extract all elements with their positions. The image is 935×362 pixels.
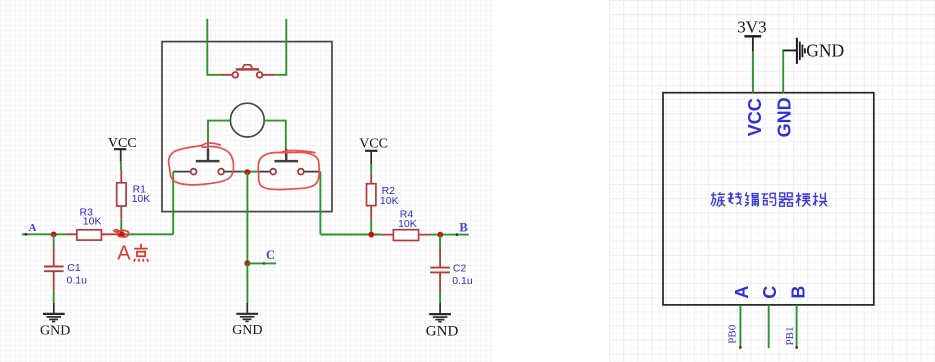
svg-text:B: B bbox=[459, 221, 467, 235]
switch SW-A actuator bbox=[196, 149, 220, 161]
svg-text:A: A bbox=[29, 222, 37, 234]
wire 3v3 to vcc pin bbox=[752, 52, 754, 93]
svg-text:B: B bbox=[789, 286, 809, 299]
wire C2 to gnd bbox=[439, 292, 441, 303]
svg-text:C: C bbox=[266, 248, 275, 262]
svg-text:PB0: PB0 bbox=[727, 324, 739, 343]
svg-text:C1: C1 bbox=[67, 262, 81, 274]
switch SW-A contacts bbox=[191, 169, 197, 175]
module title glyphs bbox=[711, 192, 828, 206]
svg-text:10K: 10K bbox=[398, 218, 417, 230]
svg-text:A: A bbox=[117, 242, 131, 264]
glyph kuai bbox=[813, 193, 828, 207]
wire center to gnd bbox=[246, 263, 248, 303]
wire endpoint A bbox=[24, 233, 27, 236]
wire shaft left bbox=[208, 121, 230, 150]
switch SW-A contact lines bbox=[173, 171, 240, 173]
glyph mo bbox=[796, 192, 811, 206]
resistor R1 bbox=[120, 171, 122, 220]
resistor R2 bbox=[370, 174, 372, 221]
wire switch A left drop bbox=[172, 172, 174, 235]
push button S1 leads bbox=[221, 74, 275, 76]
ground left bbox=[43, 303, 65, 322]
glyph qi bbox=[779, 193, 793, 206]
pin wire C bbox=[768, 305, 770, 348]
svg-text:GND: GND bbox=[806, 40, 844, 60]
svg-text:GND: GND bbox=[775, 97, 795, 137]
glyph xuan bbox=[711, 192, 725, 206]
annotation ellipse left switch bbox=[169, 143, 234, 185]
encoder outline box bbox=[162, 42, 332, 212]
glyph ma bbox=[762, 193, 776, 205]
junction A / C1 bbox=[51, 232, 57, 238]
glyph dian bbox=[134, 244, 148, 262]
wire R2 to rail bbox=[370, 221, 372, 235]
wire rail A bbox=[22, 233, 67, 235]
wire to center junction right bbox=[247, 171, 257, 173]
wire vcc to R2 bbox=[370, 165, 372, 174]
wire switch B right drop bbox=[319, 172, 321, 235]
capacitor C2 bbox=[439, 235, 441, 248]
wire to center junction left bbox=[241, 171, 248, 173]
svg-text:PB1: PB1 bbox=[784, 327, 796, 346]
svg-text:10K: 10K bbox=[132, 193, 151, 205]
encoder shaft circle bbox=[230, 103, 264, 137]
glyph bian bbox=[745, 192, 759, 206]
svg-text:GND: GND bbox=[426, 324, 459, 340]
wire C1 to gnd bbox=[53, 291, 55, 303]
svg-text:GND: GND bbox=[232, 323, 262, 338]
wire rail right bbox=[320, 234, 381, 236]
wire top-right vertical bbox=[275, 19, 286, 75]
wire node C stub bbox=[247, 262, 276, 264]
svg-text:A: A bbox=[732, 286, 752, 299]
junction R1 rail bbox=[119, 231, 125, 237]
wire endpoint PB1 bbox=[795, 346, 798, 349]
svg-text:0.1u: 0.1u bbox=[452, 275, 473, 287]
annotation ellipse right switch bbox=[258, 151, 319, 190]
svg-text:0.1u: 0.1u bbox=[67, 274, 88, 286]
resistor R4 bbox=[381, 234, 430, 236]
glyph zhuan bbox=[728, 192, 742, 205]
switch SW-B contacts bbox=[270, 169, 276, 175]
push button S1 actuator bar bbox=[236, 68, 259, 71]
wire top-left vertical bbox=[207, 19, 221, 75]
svg-text:3V3: 3V3 bbox=[737, 17, 766, 36]
module box bbox=[663, 93, 874, 305]
wire endpoint B bbox=[456, 233, 459, 236]
wire center drop bbox=[246, 172, 248, 263]
svg-text:VCC: VCC bbox=[745, 98, 765, 136]
wire gnd pin up bbox=[783, 50, 796, 92]
resistor R3 bbox=[67, 233, 115, 235]
junction R2 rail bbox=[368, 232, 374, 238]
capacitor C1 bbox=[53, 234, 55, 245]
annotation scribble at A junction bbox=[114, 230, 129, 237]
svg-text:10K: 10K bbox=[380, 195, 399, 207]
ground right bbox=[429, 303, 451, 322]
wire vcc to R1 bbox=[120, 161, 122, 170]
svg-text:10K: 10K bbox=[83, 216, 102, 228]
ground flag top bbox=[797, 38, 805, 64]
ground center bbox=[236, 303, 258, 322]
svg-text:C: C bbox=[760, 286, 780, 299]
svg-text:GND: GND bbox=[40, 323, 70, 338]
wire shaft right bbox=[264, 121, 286, 150]
junction C2 rail bbox=[437, 232, 443, 238]
wire rail to switch drop bbox=[115, 233, 173, 235]
wire endpoint PB0 bbox=[739, 346, 742, 349]
switch SW-B actuator bbox=[274, 149, 298, 161]
wire R4 to B bbox=[430, 234, 469, 236]
svg-text:VCC: VCC bbox=[359, 137, 388, 152]
push button S1 contacts bbox=[233, 72, 239, 78]
wire R1 to rail bbox=[120, 219, 122, 234]
svg-text:C2: C2 bbox=[453, 263, 467, 275]
junction center switches bbox=[244, 169, 250, 175]
pin wire B bbox=[796, 305, 798, 347]
switch SW-B contact lines bbox=[258, 171, 321, 173]
wire endpoint C bbox=[263, 262, 266, 265]
junction node C bbox=[244, 260, 250, 266]
pin wire A bbox=[739, 305, 741, 347]
